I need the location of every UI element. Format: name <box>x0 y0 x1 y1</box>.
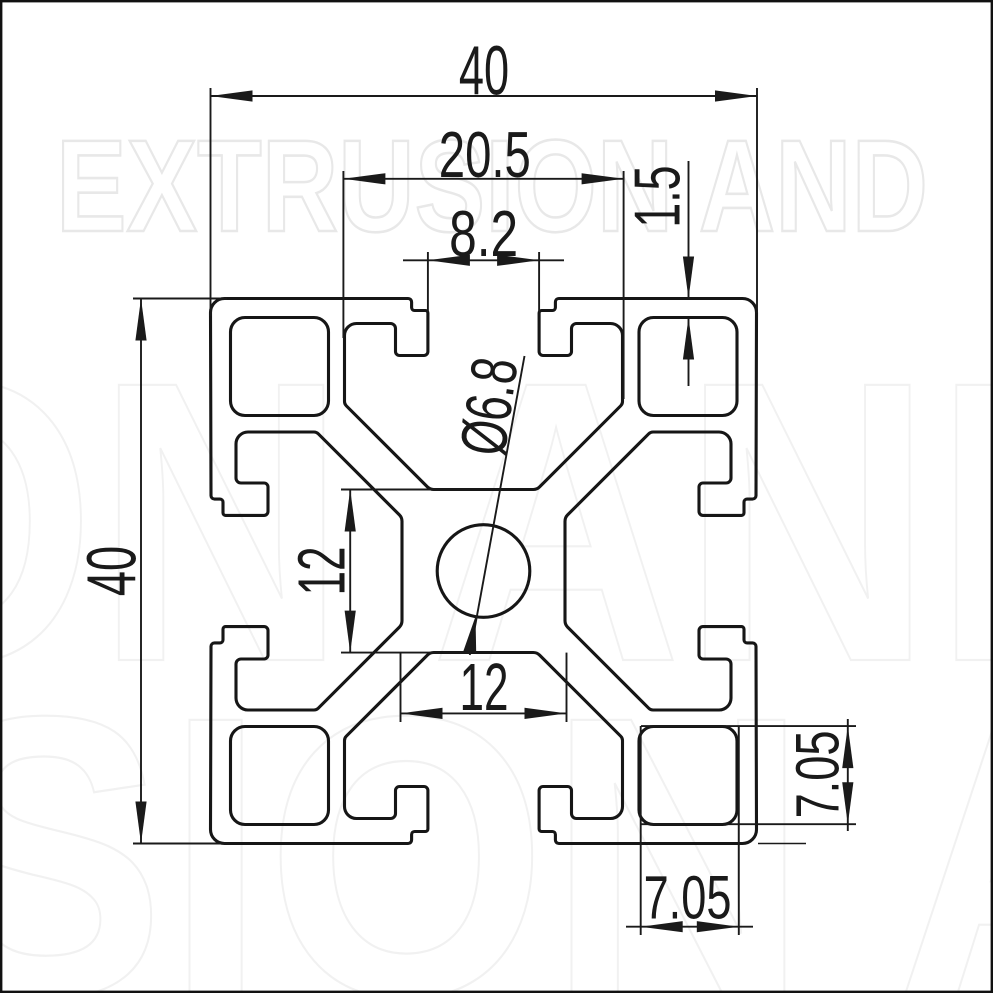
dimension 7.05 (corner square width) <box>626 726 753 935</box>
profile drawing <box>211 299 757 844</box>
dimension 12 (core width) <box>401 651 567 725</box>
center bore circle <box>437 525 530 618</box>
corner square hole bottom-right <box>639 727 737 825</box>
svg-text:8.2: 8.2 <box>449 199 518 271</box>
dimension 20.5 (slot cavity width) <box>343 120 623 399</box>
short extension line right of bottom face <box>758 843 806 845</box>
corner square hole top-right <box>639 318 737 416</box>
svg-text:40: 40 <box>74 546 151 596</box>
dimension 1.5 (wall thickness) <box>621 161 694 386</box>
corner square hole top-left <box>231 318 329 416</box>
svg-text:Ø6.8: Ø6.8 <box>445 353 531 459</box>
dimension 40 (left height) <box>74 299 230 844</box>
dimension 40 (top width) <box>211 33 758 316</box>
svg-text:12: 12 <box>459 651 508 725</box>
svg-text:7.05: 7.05 <box>644 864 732 932</box>
svg-text:12: 12 <box>285 546 359 595</box>
svg-text:7.05: 7.05 <box>784 731 852 819</box>
svg-text:1.5: 1.5 <box>621 166 693 228</box>
aluminium extrusion profile outline <box>211 299 757 844</box>
svg-text:20.5: 20.5 <box>439 120 531 192</box>
dimension 7.05 (corner square height) <box>641 719 856 831</box>
leader and label Ø6.8 (center bore) <box>445 353 531 655</box>
dimension 12 (core height) <box>285 490 470 653</box>
svg-text:40: 40 <box>459 33 509 110</box>
corner square hole bottom-left <box>231 727 329 825</box>
dimension 8.2 (slot opening) <box>403 199 564 312</box>
